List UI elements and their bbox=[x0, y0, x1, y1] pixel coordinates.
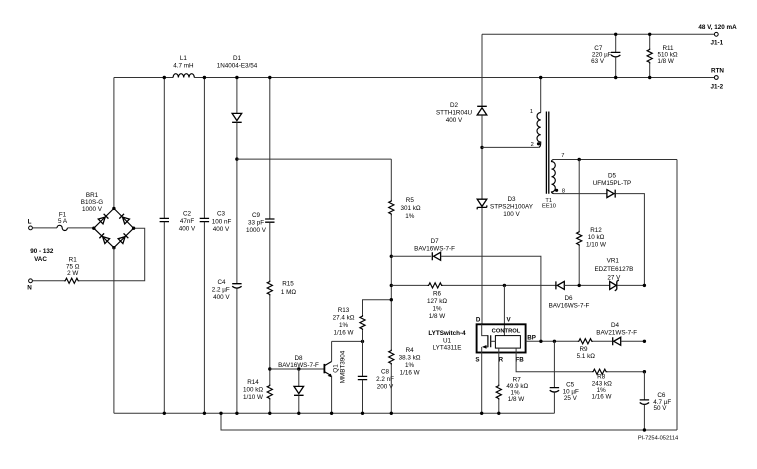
node D1-R5 tap bbox=[235, 157, 238, 160]
svg-text:1/8 W: 1/8 W bbox=[657, 58, 674, 65]
svg-text:38.3 kΩ: 38.3 kΩ bbox=[399, 354, 421, 361]
resistor R15 bbox=[267, 280, 272, 295]
svg-text:BP: BP bbox=[527, 334, 536, 341]
svg-text:1/10 W: 1/10 W bbox=[586, 241, 606, 248]
svg-text:90 - 132: 90 - 132 bbox=[30, 248, 54, 255]
svg-text:R6: R6 bbox=[433, 290, 442, 297]
wire top rail y=77.5 bbox=[114, 77, 714, 79]
svg-text:1000 V: 1000 V bbox=[82, 206, 103, 213]
svg-text:2.2 µF: 2.2 µF bbox=[212, 286, 230, 293]
svg-text:D4: D4 bbox=[611, 322, 620, 329]
svg-text:N: N bbox=[27, 285, 32, 292]
svg-text:1N4004-E3/54: 1N4004-E3/54 bbox=[217, 62, 258, 69]
svg-text:1/16 W: 1/16 W bbox=[400, 369, 420, 376]
svg-text:BAV16WS-7-F: BAV16WS-7-F bbox=[549, 303, 590, 310]
svg-text:301 kΩ: 301 kΩ bbox=[400, 205, 420, 212]
capacitor C2 bbox=[163, 78, 165, 219]
IC mosfet bbox=[482, 324, 488, 335]
svg-text:C8: C8 bbox=[381, 369, 390, 376]
transformer T1 primary winding bbox=[540, 78, 542, 113]
svg-text:CONTROL: CONTROL bbox=[492, 329, 521, 335]
capacitor C9 bbox=[269, 78, 271, 219]
resistor R6 bbox=[391, 284, 427, 286]
wire primary bottom rail bbox=[114, 412, 555, 414]
wire tap to R5 bbox=[237, 158, 391, 160]
bridge diode left-top bbox=[98, 214, 108, 224]
node pin2/D2/D3 bbox=[480, 146, 483, 149]
svg-text:1/8 W: 1/8 W bbox=[429, 313, 446, 320]
svg-text:63 V: 63 V bbox=[591, 58, 605, 65]
capacitor C7 (electrolytic) bbox=[615, 34, 617, 52]
svg-text:100 kΩ: 100 kΩ bbox=[243, 386, 263, 393]
transistor Q1 bbox=[323, 364, 325, 373]
svg-text:R15: R15 bbox=[282, 280, 294, 287]
svg-text:C3: C3 bbox=[217, 211, 226, 218]
svg-text:1/8 W: 1/8 W bbox=[508, 396, 525, 403]
svg-text:R4: R4 bbox=[406, 347, 415, 354]
node pin7/R12 bbox=[578, 158, 581, 161]
transformer phase dot pin8 bbox=[555, 189, 558, 192]
diode D4 bbox=[613, 337, 621, 345]
svg-text:100 V: 100 V bbox=[503, 211, 520, 218]
svg-text:STPS2H100AY: STPS2H100AY bbox=[490, 203, 534, 210]
node dots bottom rail bbox=[163, 412, 166, 415]
svg-text:L: L bbox=[28, 219, 32, 226]
svg-text:2 W: 2 W bbox=[67, 270, 78, 277]
transformer T1 secondary winding bbox=[552, 160, 556, 194]
svg-text:MMBT3904: MMBT3904 bbox=[340, 350, 347, 383]
node D4 out bbox=[643, 340, 646, 343]
svg-text:EE10: EE10 bbox=[542, 204, 556, 210]
svg-text:1%: 1% bbox=[339, 322, 349, 329]
inductor L1 bbox=[173, 74, 194, 78]
wire L input bbox=[32, 227, 57, 229]
svg-text:C2: C2 bbox=[183, 210, 192, 217]
svg-text:1%: 1% bbox=[432, 305, 442, 312]
capacitor C6 (electrolytic) bbox=[643, 372, 645, 400]
svg-text:1/16 W: 1/16 W bbox=[334, 329, 354, 336]
svg-text:STTH1R04U: STTH1R04U bbox=[436, 109, 472, 116]
svg-text:48 V, 120 mA: 48 V, 120 mA bbox=[698, 24, 737, 31]
svg-text:27 V: 27 V bbox=[607, 274, 621, 281]
svg-text:1%: 1% bbox=[405, 213, 415, 220]
svg-text:Q1: Q1 bbox=[333, 364, 340, 373]
node V pin tap bbox=[503, 284, 506, 287]
diode D8 bbox=[298, 369, 300, 386]
node BP/D7 bbox=[539, 340, 542, 343]
svg-text:R5: R5 bbox=[406, 197, 415, 204]
node R8/C6 bbox=[643, 370, 646, 373]
resistor R13 bbox=[363, 300, 392, 315]
resistor R14 bbox=[267, 384, 272, 399]
svg-text:10 kΩ: 10 kΩ bbox=[588, 234, 605, 241]
svg-text:33 pF: 33 pF bbox=[248, 220, 264, 227]
capacitor C4 (electrolytic) bbox=[232, 284, 241, 289]
bridge diode bottom-left bbox=[99, 233, 109, 243]
resistor R11 bbox=[649, 34, 651, 48]
node dots top rail bbox=[163, 76, 166, 79]
node D8 top bbox=[297, 367, 300, 370]
svg-text:R: R bbox=[499, 356, 504, 363]
wire pin2 line bbox=[482, 146, 539, 148]
wire Q1 collector to C8 node bbox=[332, 340, 363, 342]
svg-text:1/10 W: 1/10 W bbox=[243, 394, 263, 401]
wire V pin bbox=[503, 285, 505, 335]
node base tap bbox=[268, 367, 271, 370]
wire BP line bbox=[526, 340, 578, 342]
svg-text:R9: R9 bbox=[579, 346, 588, 353]
wire D1 to C4 bbox=[236, 122, 238, 283]
svg-text:C6: C6 bbox=[657, 392, 666, 399]
svg-text:400 V: 400 V bbox=[213, 294, 230, 301]
diode D6 bbox=[556, 281, 564, 289]
transformer T1 core bbox=[546, 112, 548, 194]
svg-text:PI-7254-052114: PI-7254-052114 bbox=[638, 436, 678, 442]
node R5/R6 bbox=[390, 284, 393, 287]
svg-text:C9: C9 bbox=[252, 212, 261, 219]
wire base line to Q1 bbox=[270, 368, 325, 370]
wire 48V output line bbox=[482, 33, 714, 35]
resistor R1 bbox=[64, 278, 79, 283]
diode D1 bbox=[236, 78, 238, 114]
diode D2 bbox=[481, 34, 483, 106]
svg-text:BAV16WS-7-F: BAV16WS-7-F bbox=[414, 245, 455, 252]
svg-text:FB: FB bbox=[515, 356, 524, 363]
bridge diode bottom-right bbox=[118, 233, 128, 243]
wire bridge bottom to ground rail bbox=[113, 248, 115, 414]
wire FB pin line bbox=[516, 348, 592, 372]
svg-text:U1: U1 bbox=[443, 337, 452, 344]
svg-text:EDZTE6127B: EDZTE6127B bbox=[594, 266, 633, 273]
svg-text:4.7 mH: 4.7 mH bbox=[173, 62, 194, 69]
svg-text:R12: R12 bbox=[590, 227, 602, 234]
svg-text:BAV16WS-7-F: BAV16WS-7-F bbox=[278, 362, 319, 369]
node bridge corners bbox=[92, 227, 95, 230]
node dots 48V line bbox=[614, 33, 617, 36]
capacitor C5 (electrolytic) bbox=[553, 341, 555, 387]
diode D3 (schottky) bbox=[477, 199, 487, 206]
resistor R9 bbox=[578, 339, 593, 344]
svg-text:VR1: VR1 bbox=[607, 258, 620, 265]
svg-text:5 A: 5 A bbox=[58, 218, 68, 225]
bridge diode right-top bbox=[119, 214, 129, 224]
diode D7 bbox=[391, 255, 431, 257]
svg-text:1%: 1% bbox=[405, 362, 415, 369]
terminal L bbox=[29, 226, 33, 230]
wire right-side vertical (pin7 return) bbox=[676, 160, 678, 431]
svg-text:J1-2: J1-2 bbox=[710, 84, 723, 91]
wire bridge top vertical bbox=[113, 78, 115, 209]
svg-text:R13: R13 bbox=[338, 307, 350, 314]
node BP/C5 bbox=[553, 340, 556, 343]
svg-text:D5: D5 bbox=[608, 173, 617, 180]
svg-text:LYT4311E: LYT4311E bbox=[433, 344, 462, 351]
svg-text:127 kΩ: 127 kΩ bbox=[427, 298, 447, 305]
svg-text:D: D bbox=[476, 317, 481, 324]
svg-text:D8: D8 bbox=[294, 355, 303, 362]
node VR1 out bbox=[643, 284, 646, 287]
svg-text:25 V: 25 V bbox=[564, 395, 578, 402]
capacitor C3 bbox=[203, 78, 205, 219]
zener VR1 bbox=[610, 281, 617, 289]
svg-text:UFM15PL-TP: UFM15PL-TP bbox=[593, 180, 632, 187]
svg-text:1000 V: 1000 V bbox=[246, 227, 267, 234]
svg-text:400 V: 400 V bbox=[446, 117, 463, 124]
IC control block bbox=[495, 336, 520, 349]
resistor R5 bbox=[390, 159, 392, 200]
svg-text:50 V: 50 V bbox=[654, 405, 668, 412]
svg-text:D2: D2 bbox=[450, 102, 459, 109]
svg-text:400 V: 400 V bbox=[179, 225, 196, 232]
diode D5 bbox=[554, 193, 607, 195]
svg-text:2: 2 bbox=[531, 142, 534, 148]
svg-text:100 nF: 100 nF bbox=[212, 218, 232, 225]
fuse F1 bbox=[57, 225, 67, 230]
svg-text:S: S bbox=[475, 356, 479, 363]
svg-text:C4: C4 bbox=[217, 279, 226, 286]
node C8/R13 junction bbox=[361, 340, 364, 343]
node R5/D7 bbox=[390, 255, 393, 258]
svg-text:BR1: BR1 bbox=[86, 192, 99, 199]
resistor R12 bbox=[578, 160, 580, 231]
svg-text:VAC: VAC bbox=[34, 256, 47, 263]
svg-text:7: 7 bbox=[561, 153, 564, 159]
wire secondary return stub bbox=[221, 413, 677, 430]
svg-text:D7: D7 bbox=[431, 238, 440, 245]
node C6 bottom bbox=[643, 428, 646, 431]
resistor R4 bbox=[389, 349, 394, 364]
svg-text:LYTSwitch-4: LYTSwitch-4 bbox=[428, 330, 466, 337]
wire N input bbox=[32, 280, 64, 282]
capacitor C8 bbox=[362, 341, 364, 376]
resistor R7 (R pin) bbox=[498, 348, 500, 384]
wire R1 to bridge right bbox=[79, 228, 144, 281]
wire S pin to rail bbox=[481, 347, 483, 413]
svg-text:1 MΩ: 1 MΩ bbox=[281, 289, 296, 296]
svg-text:RTN: RTN bbox=[711, 68, 724, 75]
svg-text:D1: D1 bbox=[233, 55, 242, 62]
svg-text:R14: R14 bbox=[247, 379, 259, 386]
bridge rectifier BR1 bbox=[94, 208, 134, 247]
svg-text:27.4 kΩ: 27.4 kΩ bbox=[333, 314, 355, 321]
resistor R8 bbox=[592, 369, 607, 374]
svg-text:BAV21WS-7-F: BAV21WS-7-F bbox=[596, 330, 637, 337]
svg-text:1: 1 bbox=[530, 109, 533, 115]
wire fuse to bridge bbox=[67, 227, 93, 229]
terminal J1-2 bbox=[714, 76, 718, 80]
transformer phase dot pin2 bbox=[537, 142, 540, 145]
svg-text:L1: L1 bbox=[180, 55, 188, 62]
wire R15 to R14 bbox=[269, 296, 271, 385]
svg-text:J1-1: J1-1 bbox=[710, 39, 723, 46]
IC U1 LYTSwitch-4 box bbox=[477, 324, 526, 352]
terminal N bbox=[29, 279, 33, 283]
svg-text:D6: D6 bbox=[564, 295, 573, 302]
svg-text:47nF: 47nF bbox=[180, 218, 195, 225]
svg-text:1/16 W: 1/16 W bbox=[592, 394, 612, 401]
node R5/R13 bbox=[390, 298, 393, 301]
svg-text:5.1 kΩ: 5.1 kΩ bbox=[577, 353, 596, 360]
terminal J1-1 bbox=[714, 32, 718, 36]
svg-text:400 V: 400 V bbox=[213, 226, 230, 233]
wire pin7 line bbox=[554, 159, 678, 161]
node D6/R12 bbox=[578, 284, 581, 287]
svg-text:D3: D3 bbox=[507, 196, 516, 203]
svg-text:B10S-G: B10S-G bbox=[81, 199, 104, 206]
